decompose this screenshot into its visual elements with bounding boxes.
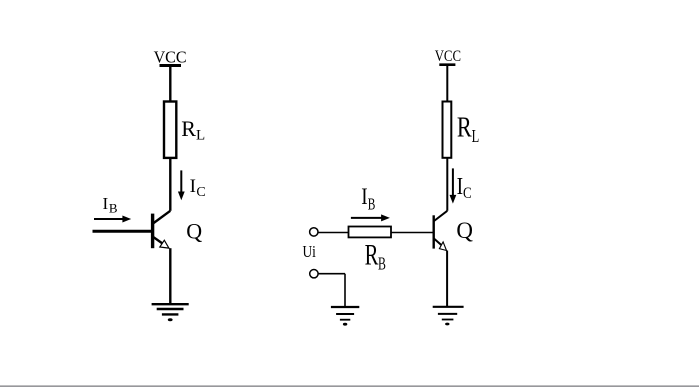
transistor Q2 emitter arrow (open triangle, right): [439, 242, 446, 251]
ground symbol (right, emitter): [433, 307, 464, 326]
transistor Q1 base bar (left): [151, 214, 154, 249]
svg-text:C: C: [196, 185, 205, 200]
transistor Q2 emitter diagonal (right): [434, 239, 441, 246]
label Q1 (left): [186, 219, 202, 244]
transistor Q2 collector diagonal (right): [434, 211, 447, 221]
ground symbol (right, input): [331, 307, 359, 326]
label Ui (right): [303, 242, 317, 261]
svg-text:VCC: VCC: [435, 48, 461, 65]
ground symbol (left): [152, 304, 189, 321]
wire R_L to collector (right): [446, 158, 448, 211]
label I_C (right): [457, 174, 472, 202]
wire R_L to collector (left): [169, 158, 171, 211]
svg-text:L: L: [472, 126, 480, 146]
svg-text:I: I: [361, 184, 367, 209]
label R_B (right): [365, 238, 386, 273]
svg-text:B: B: [109, 201, 118, 216]
base wire (left): [93, 230, 153, 233]
svg-text:Ui: Ui: [303, 242, 317, 261]
transistor Q1 emitter diagonal (left): [153, 237, 163, 244]
power rail bar VCC (right): [439, 63, 455, 66]
label R_L (right): [457, 113, 479, 146]
svg-text:R: R: [181, 116, 196, 141]
power rail bar VCC (left): [160, 64, 182, 67]
current arrow I_C (right): [450, 168, 457, 203]
current arrow I_B (right): [351, 214, 390, 221]
wire emitter to ground (left): [169, 248, 171, 304]
svg-text:Q: Q: [186, 219, 202, 244]
label I_B (right): [361, 184, 375, 213]
wire VCC to R_L (right): [446, 65, 448, 102]
label I_C (left): [190, 176, 206, 200]
svg-text:B: B: [368, 194, 376, 213]
net VCC label (right): [435, 48, 461, 65]
svg-text:I: I: [190, 176, 196, 197]
wire R_B to base (right): [391, 232, 434, 234]
transistor Q1 collector diagonal (left): [153, 211, 170, 224]
input terminal circle Ui top (right): [310, 228, 318, 236]
svg-text:I: I: [103, 194, 109, 213]
svg-text:B: B: [378, 253, 386, 273]
svg-text:R: R: [365, 238, 379, 271]
label R_L (left): [181, 116, 205, 144]
svg-text:C: C: [463, 185, 472, 202]
net VCC label (left): [154, 47, 187, 66]
bottom separator line: [0, 385, 699, 387]
resistor R_L (right) body: [443, 102, 452, 158]
svg-text:L: L: [196, 127, 205, 143]
wire lower terminal horizontal (right): [318, 273, 345, 275]
wire emitter to ground (right): [446, 251, 448, 307]
svg-text:Q: Q: [456, 218, 473, 244]
transistor Q1 emitter arrow (open triangle, left): [160, 240, 169, 248]
resistor R_B body (right): [349, 227, 392, 238]
label I_B (left): [103, 194, 118, 216]
label Q2 (right): [456, 218, 473, 244]
svg-text:R: R: [457, 113, 472, 144]
current arrow I_B (left): [94, 216, 131, 223]
transistor Q2 base bar (right): [433, 215, 435, 248]
wire VCC to R_L (left): [169, 66, 171, 103]
wire terminal to R_B (right): [318, 232, 349, 234]
wire lower terminal vertical to ground (right): [344, 274, 346, 307]
svg-text:VCC: VCC: [154, 47, 187, 66]
current arrow I_C (left): [178, 170, 185, 200]
resistor R_L (left) body: [164, 102, 176, 158]
input terminal circle Ui bottom (right): [310, 270, 318, 278]
